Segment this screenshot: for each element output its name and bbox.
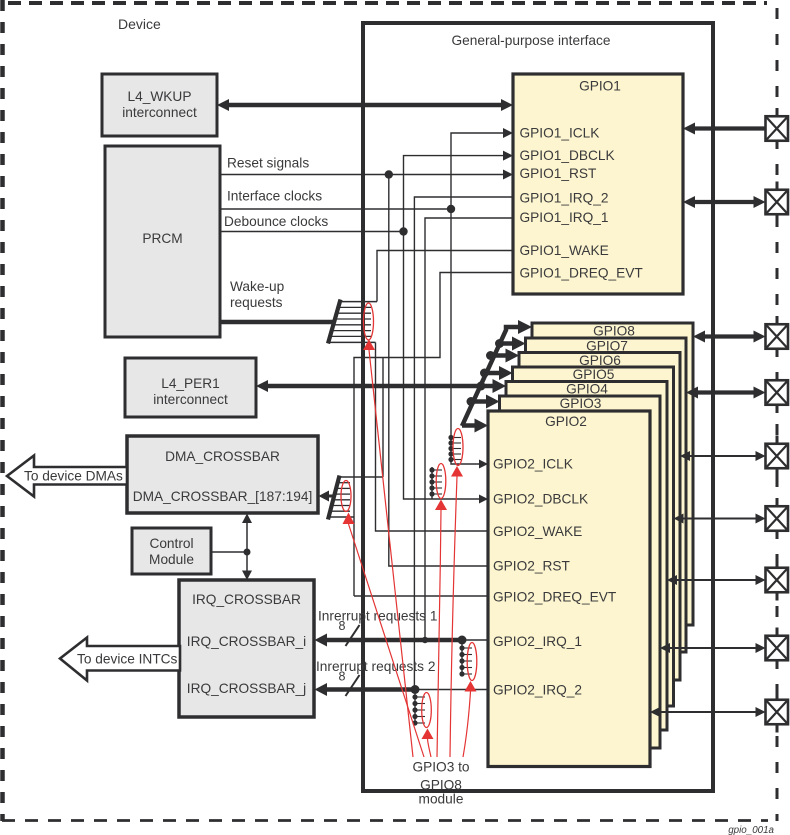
- pad row 6: GPIO5 I/O: [681, 518, 758, 520]
- svg-text:PRCM: PRCM: [142, 231, 182, 246]
- device dashed border bottom: [2, 819, 768, 822]
- block PRCM: [105, 146, 220, 337]
- red ellipse IRQ2 collector: [422, 693, 432, 728]
- svg-text:requests: requests: [230, 295, 283, 310]
- module GPIO3: [500, 396, 661, 748]
- DMA request bundle staircase: [329, 477, 384, 517]
- svg-text:Reset signals: Reset signals: [227, 156, 309, 171]
- collector IRQ2 (GPIO3-8): [414, 690, 416, 725]
- I/O pad 5: [766, 444, 789, 469]
- svg-text:GPIO4: GPIO4: [566, 382, 608, 397]
- svg-text:GPIO2_WAKE: GPIO2_WAKE: [493, 524, 582, 539]
- svg-text:GPIO1_DREQ_EVT: GPIO1_DREQ_EVT: [520, 266, 644, 281]
- junction interface/ICLK: [447, 205, 455, 213]
- svg-text:To device INTCs: To device INTCs: [77, 652, 178, 667]
- svg-text:GPIO2_IRQ_1: GPIO2_IRQ_1: [493, 634, 582, 649]
- svg-text:IRQ_CROSSBAR: IRQ_CROSSBAR: [192, 592, 301, 607]
- svg-text:GPIO1_RST: GPIO1_RST: [520, 166, 597, 181]
- pad row 3: GPIO8 I/O: [702, 334, 757, 338]
- red arrow IRQ1: [465, 681, 477, 692]
- module GPIO6: [519, 353, 680, 681]
- slash requests 1: [346, 625, 360, 646]
- svg-text:Interface clocks: Interface clocks: [227, 189, 322, 204]
- red ellipse DMA bundle: [341, 481, 351, 512]
- svg-text:GPIO1_DBCLK: GPIO1_DBCLK: [520, 148, 615, 163]
- red link IRQ1 to label: [463, 692, 471, 758]
- wire GPIO2_WAKE: [376, 343, 489, 532]
- junction reset/GPIO2_RST: [385, 170, 393, 178]
- red ellipse DBCLK collector: [436, 464, 446, 499]
- svg-text:GPIO1_IRQ_1: GPIO1_IRQ_1: [520, 210, 609, 225]
- pad row 5: GPIO6 I/O: [688, 455, 758, 457]
- svg-text:GPIO1_IRQ_2: GPIO1_IRQ_2: [520, 191, 609, 206]
- svg-text:interconnect: interconnect: [153, 392, 228, 407]
- svg-text:GPIO5: GPIO5: [573, 367, 615, 382]
- svg-text:GPIO8: GPIO8: [420, 778, 462, 793]
- pad row 9: GPIO2 I/O: [657, 711, 758, 713]
- svg-text:GPIO3: GPIO3: [560, 396, 602, 411]
- block IRQ_CROSSBAR: [179, 580, 314, 717]
- thick wire interrupt requests 1: [326, 638, 462, 643]
- svg-text:Control: Control: [149, 536, 193, 551]
- pad row 2: GPIO1 bidirectional I/O: [692, 200, 757, 204]
- wire GPIO2_DREQ_EVT: [354, 595, 488, 597]
- wake-up bundle staircase: [328, 302, 377, 343]
- junction debounce/DBCLK: [399, 227, 407, 235]
- svg-text:IRQ_CROSSBAR_i: IRQ_CROSSBAR_i: [187, 634, 306, 649]
- wire debounce clocks row: [220, 231, 404, 233]
- svg-text:Module: Module: [149, 552, 194, 567]
- block L4_WKUP interconnect: [102, 74, 217, 136]
- thick wire wake-up requests from PRCM: [220, 320, 333, 325]
- svg-text:8: 8: [339, 619, 346, 633]
- svg-text:GPIO2_RST: GPIO2_RST: [493, 559, 570, 574]
- wire GPIO2_RST: [389, 175, 488, 567]
- wire GPIO1_ICLK: [451, 133, 504, 209]
- wire interface clocks row: [220, 208, 451, 210]
- red arrow ICLK: [451, 466, 463, 477]
- red arrow DBCLK: [435, 500, 447, 511]
- junction + arrow into GPIO3: [467, 397, 476, 406]
- svg-text:GPIO1: GPIO1: [579, 79, 621, 94]
- I/O pad 9: [766, 700, 789, 725]
- pad row 8: GPIO3 I/O: [667, 647, 758, 649]
- svg-text:L4_PER1: L4_PER1: [161, 376, 220, 391]
- outline arrow To device INTCs: [60, 638, 180, 681]
- red arrow DMA: [343, 513, 355, 525]
- junction + arrow into GPIO5: [480, 369, 489, 378]
- module GPIO2: [488, 411, 650, 767]
- svg-text:Debounce clocks: Debounce clocks: [224, 214, 328, 229]
- svg-text:GPIO2_DBCLK: GPIO2_DBCLK: [493, 492, 588, 507]
- module GPIO8: [532, 323, 693, 625]
- outline arrow To device DMAs: [7, 456, 127, 497]
- vertical arrow DMA_CROSSBAR / IRQ_CROSSBAR: [246, 519, 248, 575]
- pad row 7: GPIO4 I/O: [674, 579, 758, 581]
- svg-text:gpio_001a: gpio_001a: [728, 825, 774, 835]
- wire GPIO1_RST arrowhead: [503, 170, 513, 180]
- red arrow wake: [363, 340, 375, 351]
- junction + arrow into GPIO6: [486, 351, 495, 360]
- slash requests 2: [346, 675, 360, 696]
- wire reset signals row: [220, 174, 504, 176]
- svg-text:GPIO1_WAKE: GPIO1_WAKE: [520, 243, 609, 258]
- red link IRQ2 to label: [428, 739, 432, 757]
- I/O pad 7: [766, 568, 789, 593]
- red ellipse wake bundle: [364, 303, 374, 340]
- device dashed border right (pad ring line): [776, 8, 779, 821]
- interconnect fan diagonal to GPIO2-8: [462, 327, 521, 426]
- module GPIO1: [513, 74, 683, 294]
- svg-text:GPIO2_ICLK: GPIO2_ICLK: [493, 457, 573, 472]
- arrow into GPIO8: [518, 320, 532, 334]
- thick arrow L4_PER1 line: [265, 384, 481, 389]
- wire GPIO1_DBCLK: [404, 156, 505, 232]
- thin wire to GPIO2_IRQ_1: [462, 639, 488, 641]
- thick wire interrupt requests 2: [326, 687, 415, 692]
- red link DMA to label: [349, 524, 425, 757]
- svg-text:GPIO8: GPIO8: [593, 324, 635, 339]
- red link ICLK to label: [450, 477, 457, 758]
- block Control Module: [132, 528, 211, 574]
- pad row 4: GPIO7 I/O: [695, 390, 757, 394]
- wire DMA bundle top to DREQ net: [382, 358, 384, 478]
- thick arrow L4_WKUP to GPIO1 (bidirectional): [226, 103, 504, 108]
- DMA bundle slash: [328, 476, 340, 520]
- device dashed border left: [0, 0, 5, 821]
- wire Control Module tap: [211, 551, 247, 553]
- svg-text:To device DMAs: To device DMAs: [24, 469, 123, 484]
- I/O pad 4: [766, 380, 789, 405]
- junction + arrow into GPIO7: [495, 339, 504, 348]
- wire GPIO2_ICLK feed: [451, 209, 480, 464]
- wire GPIO1_IRQ_1: [425, 218, 513, 640]
- module GPIO4: [506, 382, 667, 731]
- junction + arrow into GPIO4 (L4_PER1 tap): [477, 382, 486, 391]
- svg-text:DMA_CROSSBAR_[187:194]: DMA_CROSSBAR_[187:194]: [133, 489, 313, 504]
- svg-text:GPIO2_IRQ_2: GPIO2_IRQ_2: [493, 683, 582, 698]
- collector ICLK (GPIO3-8): [448, 435, 453, 462]
- I/O pad 3: [766, 324, 789, 349]
- wire GPIO1_DREQ_EVT: [354, 273, 513, 597]
- I/O pad 1: [766, 116, 789, 141]
- svg-text:Wake-up: Wake-up: [230, 279, 285, 294]
- svg-text:GPIO2: GPIO2: [545, 414, 587, 429]
- junction requests1/GPIO1_IRQ_1: [422, 637, 428, 643]
- svg-text:General-purpose interface: General-purpose interface: [451, 33, 610, 48]
- General-purpose interface box: [363, 23, 713, 791]
- svg-text:interconnect: interconnect: [122, 105, 197, 120]
- arrow DMA bundle to DMA_CROSSBAR: [327, 495, 335, 498]
- arrow into GPIO2: [462, 423, 477, 428]
- wire GPIO2_DBCLK feed: [404, 232, 481, 500]
- I/O pad 6: [766, 506, 789, 531]
- red ellipse ICLK collector: [453, 429, 463, 466]
- red ellipse IRQ1 collector: [467, 643, 477, 681]
- red link DBCLK to label: [437, 510, 441, 757]
- device dashed border top: [8, 1, 767, 5]
- svg-text:L4_WKUP: L4_WKUP: [128, 89, 192, 104]
- pad row 1: GPIO1 top I/O: [692, 126, 766, 130]
- svg-text:GPIO1_ICLK: GPIO1_ICLK: [520, 126, 600, 141]
- svg-text:GPIO3 to: GPIO3 to: [412, 760, 469, 775]
- thin wire to GPIO2_IRQ_2: [415, 689, 488, 691]
- collector IRQ1 (GPIO3-8): [461, 640, 463, 676]
- junction requests2/collector: [411, 685, 420, 694]
- svg-text:IRQ_CROSSBAR_j: IRQ_CROSSBAR_j: [187, 681, 306, 696]
- module GPIO5: [513, 367, 674, 706]
- pad stubs on dashed ring: [776, 108, 779, 117]
- wire GPIO1_WAKE: [377, 251, 513, 302]
- red link wake to GPIO3-8 label: [369, 350, 413, 757]
- svg-text:module: module: [419, 792, 464, 807]
- svg-text:DMA_CROSSBAR: DMA_CROSSBAR: [165, 449, 280, 464]
- block DMA_CROSSBAR: [127, 436, 318, 513]
- red arrow IRQ2: [422, 729, 434, 740]
- I/O pad 8: [766, 636, 789, 661]
- svg-text:Device: Device: [118, 16, 161, 32]
- svg-text:8: 8: [339, 670, 346, 684]
- wire GPIO1_IRQ_2: [414, 197, 513, 690]
- module GPIO7: [526, 338, 687, 652]
- I/O pad 2: [766, 190, 789, 215]
- svg-text:Inrerrupt requests 2: Inrerrupt requests 2: [316, 659, 435, 674]
- wake-up bundle slash: [328, 300, 341, 344]
- svg-text:GPIO2_DREQ_EVT: GPIO2_DREQ_EVT: [493, 590, 617, 605]
- junction requests1/collector: [458, 636, 467, 645]
- collector DBCLK (GPIO3-8): [431, 467, 433, 499]
- block L4_PER1 interconnect: [125, 358, 256, 417]
